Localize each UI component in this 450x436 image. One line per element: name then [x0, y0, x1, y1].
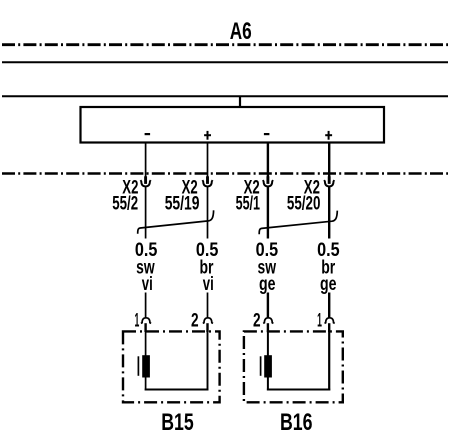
B16 right wire pin1 down: [328, 331, 330, 390]
B15 wire pin1 to element: [145, 331, 147, 356]
connector pin blade 4: [328, 176, 331, 184]
svg-text:1: 1: [317, 310, 322, 331]
svg-text:55/1: 55/1: [236, 194, 261, 215]
wire 1 down to B15 pin 1: [145, 293, 147, 319]
svg-text:vi: vi: [203, 274, 214, 295]
B16 pin 1 stub into box: [328, 323, 330, 332]
svg-text:2: 2: [253, 310, 261, 331]
svg-text:B15: B15: [161, 409, 194, 436]
terminal - (pin 55/2): [145, 133, 151, 135]
wire 4 below connector: [328, 187, 330, 239]
bus bar line 2: [2, 95, 448, 97]
socket contact 1: [141, 180, 151, 186]
B15 element plate line: [137, 356, 139, 376]
svg-text:1: 1: [135, 310, 140, 331]
boundary dash-dot line of control unit A6: [2, 43, 448, 46]
svg-text:55/19: 55/19: [165, 194, 200, 215]
B16 element bar: [264, 355, 272, 377]
wire 3 below connector: [267, 187, 269, 239]
connector pin blade 2: [206, 176, 209, 184]
separation dash-dot line: [2, 172, 448, 175]
component box B15: [123, 331, 220, 402]
socket contact 4: [324, 180, 334, 186]
twisted pair mark wires 1-2: [138, 210, 214, 234]
wire 2 from box to connector pin: [207, 143, 209, 179]
B15 bottom wire run: [145, 389, 209, 391]
component box B16: [244, 331, 343, 402]
wire 1 below connector: [145, 187, 147, 239]
terminal + (pin 55/20): [325, 131, 332, 140]
socket contact 2: [202, 180, 212, 186]
wire 4 down to B16 pin 1: [328, 293, 330, 319]
B15 pin 2 stub into box: [206, 323, 208, 332]
pin contact arc B16 pin 2: [263, 318, 273, 324]
pin contact arc B15 pin 1: [141, 318, 151, 324]
wire 4 from box to connector pin: [328, 143, 330, 179]
terminal - (pin 55/1): [264, 133, 270, 135]
twisted pair mark wires 3-4: [259, 211, 337, 235]
connector pin blade 1: [144, 176, 147, 184]
output block box: [81, 107, 385, 143]
pin contact arc B15 pin 2: [203, 318, 213, 324]
wire 1 from box to connector pin: [145, 143, 147, 179]
B16 element plate line: [260, 356, 262, 376]
svg-text:ge: ge: [259, 274, 276, 295]
B15 wire element to bottom: [145, 378, 147, 391]
wire stub from bus to output block: [239, 96, 241, 108]
pin contact arc B16 pin 1: [325, 318, 335, 324]
wire 3 down to B16 pin 2: [267, 293, 269, 319]
svg-text:55/2: 55/2: [112, 194, 138, 215]
svg-text:55/20: 55/20: [287, 194, 321, 215]
B16 wire element to bottom: [267, 378, 269, 391]
wire 3 from box to connector pin: [267, 143, 269, 179]
B16 bottom wire run: [267, 389, 330, 391]
wire 2 below connector: [207, 187, 209, 239]
B16 wire pin2 to element: [267, 331, 269, 356]
B15 pin 1 stub into box: [144, 323, 146, 332]
wire 2 down to B15 pin 2: [207, 293, 209, 319]
svg-text:vi: vi: [142, 274, 153, 295]
terminal + (pin 55/19): [204, 131, 211, 140]
svg-text:A6: A6: [230, 18, 252, 45]
B15 right wire pin2 down: [207, 331, 209, 390]
connector pin blade 3: [266, 176, 269, 184]
socket contact 3: [263, 180, 273, 186]
svg-text:B16: B16: [280, 409, 313, 436]
svg-text:ge: ge: [320, 274, 337, 295]
svg-text:2: 2: [191, 310, 199, 331]
B15 element bar: [142, 355, 150, 377]
B16 pin 2 stub into box: [267, 323, 269, 332]
bus bar line 1: [2, 61, 448, 63]
